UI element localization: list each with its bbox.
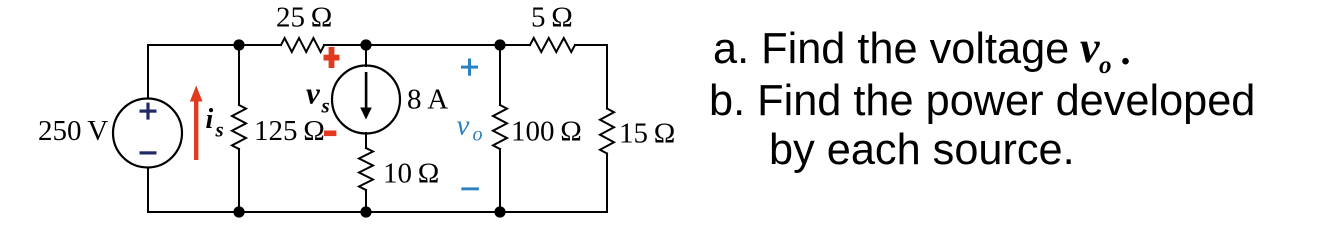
svg-text:v: v: [1080, 23, 1100, 72]
svg-text:o: o: [473, 124, 483, 146]
svg-text:i: i: [206, 104, 214, 135]
svg-text:a. Find the voltage: a. Find the voltage: [713, 25, 1069, 73]
svg-text:v: v: [306, 76, 321, 111]
svg-text:s: s: [215, 118, 224, 142]
svg-text:s: s: [321, 94, 330, 118]
svg-text:5 Ω: 5 Ω: [531, 2, 573, 34]
svg-text:by each source.: by each source.: [769, 126, 1075, 174]
svg-text:10 Ω: 10 Ω: [383, 158, 439, 190]
svg-text:8 A: 8 A: [407, 84, 448, 116]
svg-text:o: o: [1099, 52, 1112, 79]
svg-text:b. Find the power developed: b. Find the power developed: [709, 77, 1255, 125]
svg-text:125 Ω: 125 Ω: [254, 115, 325, 147]
svg-text:15 Ω: 15 Ω: [619, 118, 675, 150]
svg-text:v: v: [457, 110, 470, 142]
svg-text:250 V: 250 V: [38, 115, 108, 147]
svg-text:25 Ω: 25 Ω: [276, 2, 332, 34]
svg-text:100 Ω: 100 Ω: [511, 116, 582, 148]
